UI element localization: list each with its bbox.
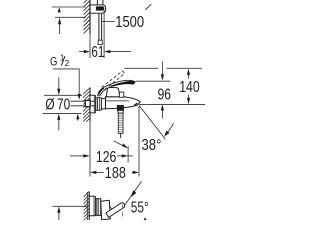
- svg-text:55°: 55°: [131, 198, 149, 216]
- svg-text:61: 61: [91, 42, 104, 60]
- svg-text:Ø 70: Ø 70: [45, 95, 70, 113]
- svg-text:96: 96: [158, 85, 172, 103]
- svg-text:38°: 38°: [142, 137, 162, 154]
- svg-text:140: 140: [179, 79, 200, 97]
- svg-text:1500: 1500: [115, 14, 144, 31]
- svg-text:126: 126: [96, 147, 117, 165]
- svg-text:2: 2: [65, 59, 70, 68]
- svg-text:188: 188: [105, 165, 126, 183]
- svg-text:G: G: [50, 55, 57, 68]
